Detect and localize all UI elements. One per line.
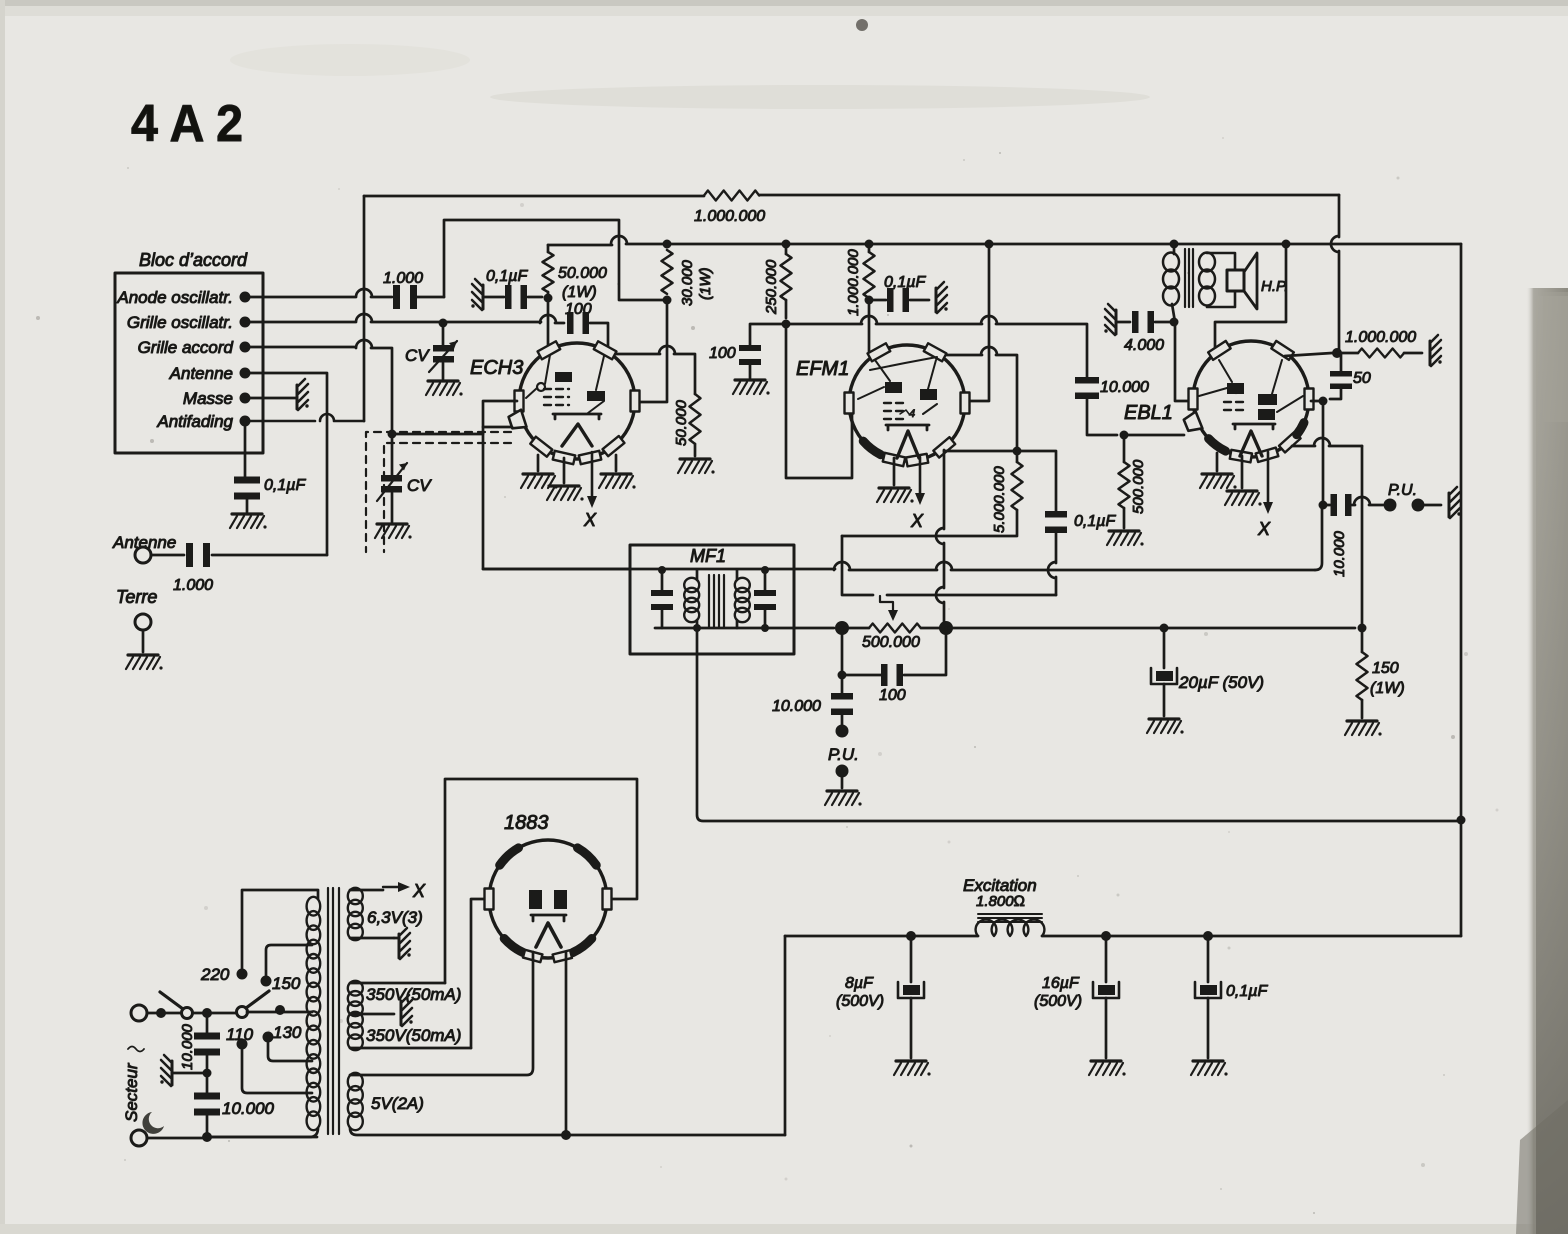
wire masse <box>245 397 297 400</box>
node 8µF <box>906 931 916 941</box>
wire excitation to 1883 <box>784 936 787 1135</box>
tap 220 <box>237 969 248 980</box>
tap 150 <box>261 976 272 987</box>
wire chassis to cap <box>483 296 504 299</box>
wire pin to ground (EFM1) <box>893 458 896 485</box>
tube EBL1 internals <box>1227 383 1244 394</box>
svg-text:ECH3: ECH3 <box>470 357 523 379</box>
potentiometer 500.000 <box>869 624 921 633</box>
node HP primary <box>1170 240 1179 249</box>
node diode <box>1319 397 1328 406</box>
tube EFM1 pins <box>868 343 891 361</box>
chassis masse <box>297 379 309 410</box>
wiper arrow (500.000) <box>880 596 893 612</box>
wire cap to node <box>528 296 542 299</box>
ground B (ECH3) <box>547 486 584 501</box>
ground B (EBL1) <box>1225 491 1262 506</box>
svg-text:Terre: Terre <box>116 587 157 607</box>
wire 30.000 to ECH3 plate pin <box>640 300 667 402</box>
node 1883 filament <box>561 1130 571 1140</box>
node EFM1 grid bus <box>782 320 791 329</box>
capacitor 4.000 <box>1104 304 1116 335</box>
arrow X (ECH3 filament) <box>591 452 594 498</box>
ground A (EBL1) <box>1200 474 1237 489</box>
node 30.000 top <box>663 240 672 249</box>
svg-text:500.000: 500.000 <box>862 634 920 651</box>
ground (terre) <box>126 655 163 670</box>
wire pot to 20µF line <box>946 627 1355 630</box>
wire ECH3 cathode to MF1 <box>483 401 630 569</box>
svg-text:50.000: 50.000 <box>558 265 607 282</box>
ground A (ECH3) <box>521 474 558 489</box>
wire excitation line <box>785 935 1461 938</box>
wire pin to ground B <box>563 458 566 483</box>
svg-text:4 A 2: 4 A 2 <box>131 95 243 153</box>
inductor HP secondary <box>1199 253 1215 272</box>
svg-text:1.000: 1.000 <box>383 270 423 287</box>
svg-text:4.000: 4.000 <box>1124 337 1164 354</box>
node 0,1µF <box>1203 931 1213 941</box>
node MF1 primary cap top <box>658 566 666 574</box>
node switch <box>156 1008 166 1018</box>
terminal P.U. c <box>1384 499 1397 512</box>
wire grid line to spigot <box>1124 434 1184 437</box>
svg-text:0,1µF: 0,1µF <box>264 477 306 494</box>
wire MF1 bottom <box>655 627 834 630</box>
wire secteur bottom <box>147 1137 317 1138</box>
node 16µF <box>1101 931 1111 941</box>
wire diode pin <box>1311 400 1323 403</box>
node 20µF <box>1160 624 1169 633</box>
tube EBL1 pins <box>1208 341 1231 360</box>
capacitor 10.000 (secteur b) <box>206 1073 209 1094</box>
wire right vertical <box>1460 244 1463 936</box>
switch arm 2 <box>246 991 269 1008</box>
svg-text:X: X <box>412 881 426 901</box>
wire anode oscillator <box>245 289 392 297</box>
svg-text:10.000: 10.000 <box>179 1023 196 1070</box>
svg-text:130: 130 <box>273 1023 302 1042</box>
svg-text:110: 110 <box>226 1025 254 1044</box>
wire 1883 anode 2 <box>471 899 487 1048</box>
svg-text:10.000: 10.000 <box>1100 379 1149 396</box>
arrow X (6,3V) <box>383 886 398 888</box>
terminal secteur bottom <box>131 1130 147 1146</box>
capacitor 10.000 (PU) <box>841 675 844 694</box>
transformer MF1 box <box>630 545 794 654</box>
inductor HP primary <box>1172 244 1175 322</box>
ground (CV1) <box>426 381 463 396</box>
wire HT bus <box>548 236 1461 245</box>
node MF1 secondary bottom <box>761 624 769 632</box>
svg-text:X: X <box>1257 519 1271 539</box>
terminal secteur top <box>131 1005 147 1021</box>
chassis (0,1µF osc) <box>471 279 483 310</box>
switch arm 1 <box>160 992 183 1009</box>
wire 150 <box>266 945 312 981</box>
wire oscillator grid feed <box>444 220 667 300</box>
wire pivot2 to winding <box>247 1011 312 1014</box>
svg-text:1.000.000: 1.000.000 <box>1345 329 1416 346</box>
svg-text:30.000: 30.000 <box>679 259 696 306</box>
capacitor 0,1µF (antifading) <box>234 477 260 484</box>
svg-text:CV: CV <box>407 476 432 495</box>
wire AVC left vertical <box>363 196 366 421</box>
capacitor 16µF (500V) <box>1105 936 1108 982</box>
speaker H.P. <box>1227 270 1244 291</box>
node antifading terminal <box>240 416 251 427</box>
svg-text:10.000: 10.000 <box>222 1099 275 1118</box>
arrow X (EFM1) <box>919 457 922 495</box>
svg-text:150: 150 <box>272 974 301 993</box>
wire pin to ground C <box>615 455 618 471</box>
tube EFM1 envelope <box>849 345 965 461</box>
ground (500k) <box>1107 531 1144 546</box>
wire grid staircase <box>786 324 852 478</box>
svg-text:10.000: 10.000 <box>772 698 821 715</box>
node EBL1 screen top <box>1282 240 1291 249</box>
tube 1883 pins <box>485 889 494 910</box>
wire AVC vertical <box>1331 195 1339 353</box>
capacitor 0,1µF (HT) <box>1207 936 1210 982</box>
node 130 feed <box>275 1005 285 1015</box>
core HP transformer <box>1185 249 1193 307</box>
svg-text:5.000.000: 5.000.000 <box>991 466 1008 533</box>
node 50.000 bottom <box>544 294 553 303</box>
svg-text:MF1: MF1 <box>690 546 726 566</box>
terminal P.U. a <box>836 725 849 738</box>
terminal P.U. b <box>836 765 849 778</box>
svg-text:0,1µF: 0,1µF <box>884 274 926 291</box>
ground (P.U.) <box>825 791 862 806</box>
wire HP primary to EBL1 plate <box>1175 322 1191 401</box>
inductor 350V windings <box>348 981 363 996</box>
wire terre <box>142 630 145 652</box>
wire pin to ground A (EBL1) <box>1216 453 1219 471</box>
resistor 250.000 <box>785 244 788 254</box>
svg-text:1.000.000: 1.000.000 <box>694 208 765 225</box>
node right bus <box>1457 816 1466 825</box>
svg-text:X: X <box>910 511 924 531</box>
resistor 30.000 (1W) <box>662 250 673 294</box>
chassis (350V ct) <box>401 995 413 1026</box>
wire diode node down <box>1322 401 1325 505</box>
node MF1 primary bottom <box>693 624 701 632</box>
svg-text:H.P.: H.P. <box>1261 278 1288 295</box>
svg-text:(1W): (1W) <box>697 268 714 301</box>
svg-text:Grille oscillatr.: Grille oscillatr. <box>127 313 233 332</box>
inductor transformer primary <box>307 897 321 916</box>
tube EFM1 internals <box>885 382 902 393</box>
wire screen feed <box>1215 244 1286 350</box>
wire to ground <box>694 444 697 456</box>
chassis (0,1µF EFM1) <box>936 282 948 313</box>
inductor excitation 1.800 <box>976 920 1045 936</box>
resistor 1.000.000 (EFM1) <box>868 244 871 252</box>
resistor 50.000 (1W) <box>547 245 550 252</box>
svg-text:1883: 1883 <box>504 812 549 834</box>
svg-text:1.000: 1.000 <box>173 577 213 594</box>
tube EBL1 arcs <box>1209 439 1226 452</box>
tube ECH3 internals <box>555 372 572 382</box>
arrow X (EBL1) <box>1267 452 1270 504</box>
tap 130 <box>263 1032 274 1043</box>
svg-text:Secteur: Secteur <box>122 1062 141 1122</box>
wire antifading to cap <box>244 421 247 477</box>
capacitor 0,1µF (EFM1) <box>869 299 886 302</box>
svg-text:350V(50mA): 350V(50mA) <box>366 1026 461 1045</box>
terminal P.U. d <box>1412 499 1425 512</box>
core transformer <box>328 888 339 1134</box>
tube EBL1 envelope <box>1193 341 1309 457</box>
inductor MF1 primary <box>684 578 699 592</box>
wire 1883 filament right <box>565 952 568 1135</box>
tube 1883 arcs <box>500 848 519 865</box>
wire 220 to winding top <box>242 890 317 974</box>
node secteur mid <box>203 1069 212 1078</box>
svg-text:EBL1: EBL1 <box>1124 402 1173 424</box>
svg-text:0,1µF: 0,1µF <box>1074 513 1116 530</box>
capacitor 10.000 (secteur a) <box>206 1013 209 1034</box>
capacitor 8µF (500V) <box>910 936 913 982</box>
wire grid node to tube pin <box>547 298 550 345</box>
wire EFM1 diode pin down <box>936 450 944 628</box>
capacitor 100 (EFM1 grid) <box>750 324 786 346</box>
ground (100 EFM1) <box>733 380 770 395</box>
wire grille oscillateur <box>245 314 564 323</box>
wire EBL1 cathode line <box>1292 438 1362 446</box>
wire cap to grid-feed corner <box>415 296 444 299</box>
ground (16µF) <box>1089 1061 1126 1076</box>
node AVC <box>1332 348 1342 358</box>
wire MF1 top line <box>483 562 1315 570</box>
capacitor MF1 primary <box>661 570 664 590</box>
node 4.000 <box>1170 318 1179 327</box>
wire PU to ground <box>841 771 844 788</box>
tube ECH3 envelope <box>519 343 635 459</box>
wire antenne to bloc <box>212 554 327 557</box>
wire CV2 to cathode line <box>392 433 483 436</box>
node anode osc terminal <box>240 292 251 303</box>
ground (20µF) <box>1147 719 1184 734</box>
tube 1883 internals <box>529 890 542 909</box>
tap 110 <box>237 1039 248 1050</box>
svg-text:5V(2A): 5V(2A) <box>371 1094 424 1113</box>
node 10.000 top <box>202 1008 212 1018</box>
wire spigot link <box>483 426 512 429</box>
speaker frame <box>1207 253 1235 307</box>
svg-text:(1W): (1W) <box>562 284 597 301</box>
wire MF1 sec to diode <box>1315 505 1322 570</box>
node PU cap <box>1319 501 1328 510</box>
wire grid bus <box>786 316 1087 379</box>
svg-text:250.000: 250.000 <box>763 259 780 315</box>
capacitor 50 <box>1330 371 1352 377</box>
resistor 1.000.000 (AVC) <box>1337 352 1358 355</box>
wire AVC top line <box>364 195 1339 196</box>
core MF1 <box>709 575 724 628</box>
node detector <box>1013 447 1022 456</box>
node 100/10.000 <box>838 671 847 680</box>
variable capacitor CV1 <box>442 323 445 345</box>
svg-text:150: 150 <box>1372 660 1399 677</box>
node pot right <box>939 621 953 635</box>
node 150 ohm <box>1358 624 1367 633</box>
svg-text:16µF: 16µF <box>1042 975 1080 992</box>
ground (8µF) <box>894 1061 931 1076</box>
inductor MF1 secondary <box>735 578 750 592</box>
wire grille accord <box>245 340 392 430</box>
svg-text:220: 220 <box>200 965 230 984</box>
svg-text:1.800Ω: 1.800Ω <box>976 893 1025 910</box>
capacitor 20µF (50V) <box>1163 628 1166 668</box>
svg-text:EFM1: EFM1 <box>796 358 849 380</box>
tuning unit box Bloc d'accord <box>115 273 263 453</box>
wire 1meg to grid pin <box>868 300 871 352</box>
resistor 150 (1W) <box>1361 628 1364 652</box>
svg-text:CV: CV <box>405 346 430 365</box>
svg-text:Antifading: Antifading <box>156 412 233 431</box>
wire AF line <box>887 594 1056 597</box>
tube EFM1 cathode arc <box>863 441 881 455</box>
wire 100 cap to divider <box>590 323 695 394</box>
wire antifading <box>245 414 364 421</box>
capacitor MF1 secondary <box>764 570 767 590</box>
ground (EFM1) <box>877 488 914 503</box>
wire pin to ground A <box>537 455 540 471</box>
capacitor 10.000 (EBL1 grid) <box>1075 377 1099 384</box>
svg-text:P.U.: P.U. <box>1388 482 1417 499</box>
svg-text:(500V): (500V) <box>1034 993 1082 1010</box>
ground (antifading cap) <box>230 514 267 529</box>
wire 1883 filament left <box>350 952 533 1075</box>
switch pivot 1 <box>182 1008 193 1019</box>
terminal terre <box>135 614 151 630</box>
ganging link (dashed) <box>366 432 511 552</box>
node 1meg top <box>865 240 874 249</box>
capacitor 1.000 (antenne) <box>186 543 193 567</box>
node secteur bottom <box>202 1132 212 1142</box>
svg-text:20µF (50V): 20µF (50V) <box>1178 673 1264 692</box>
svg-text:(1W): (1W) <box>1370 680 1405 697</box>
ground (50.000) <box>678 459 715 474</box>
node grille osc terminal <box>240 317 251 328</box>
node grille accord terminal <box>240 342 251 353</box>
tube EBL1 spigot <box>1184 412 1203 431</box>
inductor 5V winding <box>348 1073 363 1091</box>
svg-text:(500V): (500V) <box>836 993 884 1010</box>
node 1meg bottom <box>865 296 874 305</box>
svg-text:500.000: 500.000 <box>1130 459 1147 514</box>
ground (0,1µF HT) <box>1191 1061 1228 1076</box>
tube ECH3 pins <box>538 341 561 359</box>
svg-text:Bloc d’accord: Bloc d’accord <box>139 250 248 270</box>
wire detector node west <box>944 450 1017 453</box>
wire screen vertical <box>966 244 989 401</box>
capacitor 100 (pot) <box>842 628 881 675</box>
node MF1 secondary cap top <box>761 566 769 574</box>
svg-text:50.000: 50.000 <box>673 399 690 446</box>
svg-text:X: X <box>583 510 597 530</box>
ground C (ECH3) <box>599 474 636 489</box>
wire antenne input <box>151 554 184 557</box>
resistor 50.000 (cathode) <box>690 394 701 444</box>
wire 110 <box>242 1044 312 1093</box>
svg-text:P.U.: P.U. <box>828 745 859 764</box>
tube ECH3 spigot <box>509 410 527 429</box>
svg-text:4: 4 <box>909 408 915 420</box>
svg-text:350V(50mA): 350V(50mA) <box>366 985 461 1004</box>
svg-text:Anode oscillatr.: Anode oscillatr. <box>116 288 233 307</box>
svg-text:100: 100 <box>565 301 592 318</box>
ground (150) <box>1345 721 1382 736</box>
wire cap to ground <box>246 499 249 512</box>
wire B+ bus (y=820) <box>697 628 1461 821</box>
terminal antenne <box>135 547 151 563</box>
wire 5meg return <box>842 536 873 595</box>
resistor 5.000.000 <box>1016 451 1019 462</box>
ground (CV2) <box>375 524 412 539</box>
svg-text:Antenne: Antenne <box>169 364 233 383</box>
chassis (secteur) <box>160 1055 172 1086</box>
capacitor 0,1µF (detector) <box>1017 451 1056 512</box>
node masse terminal <box>240 393 251 404</box>
node antenne terminal <box>240 368 251 379</box>
switch pivot 2 <box>237 1007 248 1018</box>
wire 1883 plate loop <box>445 779 637 983</box>
wire pin to ground B (EBL1) <box>1241 456 1244 488</box>
svg-text:100: 100 <box>709 345 736 362</box>
wire EBL1 diode plate to AVC <box>1285 353 1332 356</box>
svg-text:Grille accord: Grille accord <box>138 338 234 357</box>
wire secteur top <box>147 1012 237 1015</box>
svg-text:Masse: Masse <box>183 389 233 408</box>
inductor 6,3V winding <box>348 888 363 904</box>
svg-text:0,1µF: 0,1µF <box>1226 983 1268 1000</box>
wire antenne (box) <box>245 373 327 555</box>
resistor 1.000.000 (AVC top) <box>704 191 759 201</box>
svg-text:100: 100 <box>879 687 906 704</box>
node 30.000 bottom <box>663 296 672 305</box>
node CV1 tap <box>439 319 448 328</box>
svg-text:50: 50 <box>1353 370 1371 387</box>
svg-text:1.000.000: 1.000.000 <box>845 249 862 316</box>
wire 1362 down <box>1361 446 1364 628</box>
tube 1883 envelope <box>489 840 607 958</box>
wire PU to chassis <box>1418 504 1441 507</box>
chassis (P.U.) <box>1449 487 1461 518</box>
capacitor 100 (osc grid) <box>567 312 574 334</box>
node pot left <box>835 621 849 635</box>
wire plate to detector <box>944 347 1017 449</box>
resistor 500.000 (EBL1) <box>1123 435 1126 462</box>
wire 130 <box>268 1037 312 1061</box>
capacitor 1.000 (osc coupling) <box>393 285 400 309</box>
chassis (6,3V) <box>399 928 411 959</box>
node EFM1 screen top <box>985 240 994 249</box>
node 500k top <box>1120 431 1129 440</box>
variable capacitor CV2 <box>388 430 397 439</box>
svg-text:6,3V(3): 6,3V(3) <box>367 908 423 927</box>
svg-text:10.000: 10.000 <box>1331 530 1348 577</box>
capacitor 10.000 (PU right) <box>1323 504 1330 507</box>
svg-text:0,1µF: 0,1µF <box>486 268 528 285</box>
capacitor 0,1µF (oscillator) <box>505 285 512 309</box>
svg-text:8µF: 8µF <box>845 975 874 992</box>
node 250k top <box>782 240 791 249</box>
chassis (AVC) <box>1430 335 1442 366</box>
